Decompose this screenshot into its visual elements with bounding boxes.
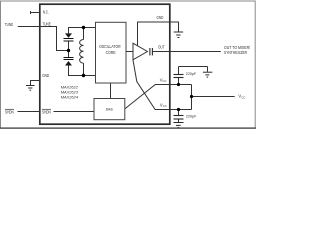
svg-text:220pF: 220pF [186, 72, 197, 76]
svg-text:220pF: 220pF [186, 114, 197, 118]
svg-text:BIAS: BIAS [106, 107, 113, 111]
svg-text:VCC: VCC [160, 103, 167, 109]
svg-text:N.C.: N.C. [43, 10, 49, 15]
svg-text:GND: GND [157, 16, 164, 21]
svg-text:OSCILLATOR: OSCILLATOR [99, 43, 121, 49]
svg-text:OUT: OUT [158, 45, 165, 50]
svg-text:SHDN: SHDN [42, 110, 51, 115]
svg-text:VCC: VCC [160, 77, 167, 83]
svg-text:SYNTHESIZER: SYNTHESIZER [224, 50, 247, 56]
svg-text:MAX2624: MAX2624 [61, 94, 79, 99]
svg-text:GND: GND [42, 74, 49, 79]
svg-text:VCC: VCC [238, 94, 245, 100]
svg-text:TUNE: TUNE [42, 22, 51, 27]
svg-text:SHDN: SHDN [5, 110, 14, 115]
svg-text:TUNE: TUNE [5, 23, 14, 28]
svg-text:CORE: CORE [106, 50, 116, 56]
